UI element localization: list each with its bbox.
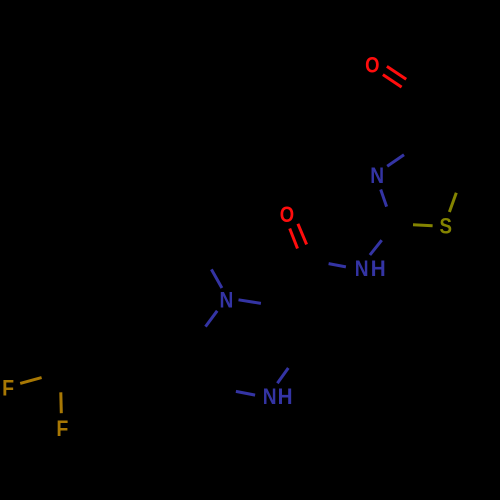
- svg-text:S: S: [440, 215, 452, 239]
- amide NH-C(=O) bond (blue half): [329, 264, 346, 267]
- svg-text:H: H: [278, 385, 293, 410]
- svg-text:O: O: [280, 203, 294, 227]
- piperazine N1 bond up (blue half): [206, 269, 261, 326]
- difluoromethyl F1 bond (gold half): [20, 378, 41, 384]
- piperazine NH bond up-right (blue half): [277, 368, 288, 383]
- svg-text:O: O: [365, 54, 379, 78]
- svg-text:N: N: [219, 288, 233, 313]
- thiazole S-C5 bond (yellow half): [449, 193, 456, 212]
- thiazole S-C2 bond (yellow half): [413, 193, 456, 226]
- piperazine NH bond left (blue half): [236, 368, 288, 395]
- piperazine N1 bond to aryl (blue half): [206, 311, 218, 327]
- svg-text:N: N: [355, 257, 369, 282]
- piperazine N1 bond right (blue half): [239, 300, 261, 304]
- acetyl C=O double bond (red halves): [383, 66, 406, 87]
- svg-text:H: H: [371, 257, 386, 282]
- amide NH-C2 bond (blue half): [329, 240, 382, 267]
- difluoromethyl F2 bond (gold half): [59, 392, 63, 413]
- thiazole N-C2 bond (blue half): [381, 190, 387, 207]
- thiazole N-C4 bond (blue half): [381, 155, 404, 207]
- svg-text:F: F: [2, 376, 14, 400]
- svg-text:N: N: [370, 164, 384, 189]
- svg-text:F: F: [56, 417, 68, 441]
- amide C=O double bond (red halves): [290, 224, 307, 249]
- svg-text:N: N: [263, 385, 277, 410]
